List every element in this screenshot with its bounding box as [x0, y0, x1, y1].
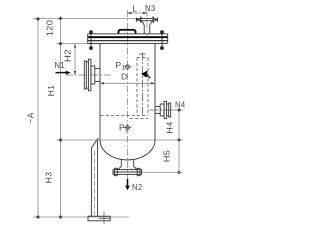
- vessel bottom head: [100, 140, 155, 160]
- svg-text:H5: H5: [162, 150, 172, 163]
- nozzle N4 centerline: [150, 109, 177, 111]
- lifting handle on cover: [119, 30, 136, 34]
- dimension H5 line: [178, 140, 180, 172]
- anchor bolt cross: [103, 212, 105, 225]
- svg-text:H4: H4: [165, 121, 175, 134]
- leg centerline: [94, 151, 96, 215]
- dimension D line: [100, 82, 155, 84]
- centerline: vessel vertical axis: [127, 10, 129, 189]
- wire: extension line at ground level: [33, 216, 129, 218]
- nozzle N2 flange: [113, 168, 142, 175]
- svg-text:N1: N1: [55, 60, 66, 70]
- dimension chain line (120 / H1 / H3): [60, 18, 62, 217]
- support leg: [91, 138, 98, 216]
- svg-text:120: 120: [45, 20, 55, 37]
- svg-text:~A: ~A: [26, 112, 36, 124]
- svg-text:L: L: [132, 4, 137, 14]
- nozzle N4 flange and neck: [155, 101, 171, 118]
- svg-text:H1: H1: [46, 85, 56, 97]
- vessel shell left wall: [99, 43, 101, 140]
- node ~A tick bottom: [36, 215, 40, 219]
- svg-text:H3: H3: [44, 172, 54, 184]
- dimension ~A line: [37, 19, 39, 217]
- node P1: [126, 65, 130, 69]
- leader arrow on internal pipe: [141, 70, 147, 77]
- internal element hidden outline: [101, 58, 149, 119]
- dimension L line: [128, 12, 148, 14]
- node ~A tick top: [36, 17, 40, 21]
- svg-text:D: D: [121, 71, 128, 81]
- node chain tick y140: [59, 138, 63, 142]
- svg-text:N3: N3: [145, 3, 156, 13]
- node H2 arrow top: [74, 44, 76, 48]
- wire: extension line N2 flange face: [142, 171, 183, 173]
- nozzle N1 centerline: [66, 74, 111, 76]
- N2 flow arrow: [127, 179, 129, 186]
- wire: extension line N4 centerline: [171, 109, 183, 111]
- node chain tick y217: [59, 215, 63, 219]
- svg-text:P1: P1: [116, 60, 126, 71]
- node chain tick y43.6: [59, 42, 63, 46]
- wire: extension line at cover underside: [57, 43, 100, 45]
- cover bolt right: [161, 30, 164, 50]
- nozzle N3 flange: [136, 17, 158, 23]
- internal pipe centerline: [141, 53, 143, 116]
- cover / body flange assembly: [88, 34, 168, 44]
- nozzle N1 flange and neck: [84, 59, 100, 91]
- nozzle N2 neck: [118, 159, 137, 169]
- svg-text:N4: N4: [175, 100, 186, 110]
- wire: N1 leader arrow: [56, 72, 68, 74]
- dimension H4 line: [178, 110, 180, 140]
- nozzle N3 neck: [142, 21, 152, 34]
- svg-text:N2: N2: [132, 182, 143, 192]
- dimension H2 line: [74, 44, 76, 75]
- wire: extension line top (N3 flange face level): [33, 17, 139, 19]
- leg base plate: [88, 216, 110, 221]
- vessel shell right wall: [154, 43, 156, 140]
- cover bolt left: [90, 30, 93, 50]
- node P2: [126, 126, 130, 130]
- centerline: N3 nozzle axis: [146, 11, 148, 37]
- node H2 arrow bottom: [74, 71, 76, 75]
- wire: extension line at bottom tangent: [57, 139, 184, 141]
- node chain tick y18.4: [59, 16, 63, 20]
